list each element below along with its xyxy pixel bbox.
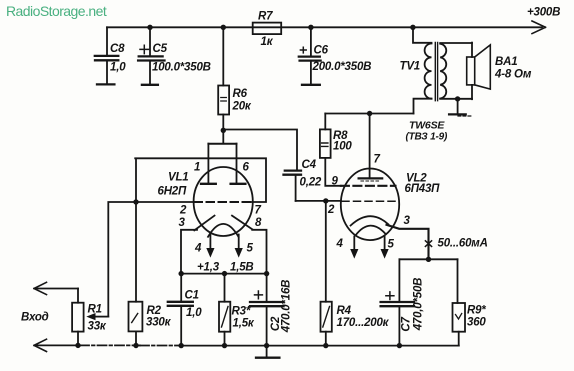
svg-text:C1: C1 bbox=[185, 290, 199, 302]
tube VL1 grid (dashed) bbox=[195, 201, 252, 203]
tube VL2 control grid (dashed) bbox=[342, 200, 396, 202]
svg-text:R4: R4 bbox=[337, 305, 352, 317]
svg-text:7: 7 bbox=[374, 154, 381, 166]
svg-text:+300В: +300В bbox=[527, 7, 560, 19]
wire VL2 cathode out pin3 bbox=[387, 225, 429, 259]
measuring point x bbox=[425, 241, 431, 247]
tube VL1 heater arrow pin5 bbox=[238, 235, 240, 249]
wire cathode node bbox=[399, 258, 457, 260]
svg-text:1,0: 1,0 bbox=[186, 307, 202, 319]
wire to C4 bbox=[223, 130, 297, 170]
svg-text:TW6SE: TW6SE bbox=[409, 120, 445, 132]
svg-text:6Н2П: 6Н2П bbox=[158, 186, 187, 198]
tube VL1 envelope bbox=[194, 167, 253, 236]
svg-text:0,22: 0,22 bbox=[300, 177, 322, 189]
resistor R3* bbox=[219, 274, 230, 346]
svg-text:200.0*350В: 200.0*350В bbox=[312, 61, 372, 73]
potentiometer R1 bbox=[34, 282, 108, 345]
svg-text:5: 5 bbox=[247, 243, 254, 255]
svg-text:1,5к: 1,5к bbox=[233, 318, 255, 330]
svg-text:20к: 20к bbox=[232, 101, 252, 113]
svg-text:4: 4 bbox=[194, 243, 202, 255]
resistor R6 bbox=[218, 27, 229, 130]
tube VL1 heater arrow pin4 bbox=[209, 235, 211, 249]
svg-text:5: 5 bbox=[388, 239, 395, 251]
tube VL2 heater arrow pin5 bbox=[384, 237, 386, 250]
svg-text:8: 8 bbox=[255, 217, 262, 229]
svg-text:RadioStorage.net: RadioStorage.net bbox=[6, 3, 107, 19]
tube VL2 screen grid (dashed) bbox=[341, 185, 396, 187]
ground C2 bbox=[266, 346, 268, 357]
svg-text:3: 3 bbox=[179, 217, 186, 229]
svg-text:1,0: 1,0 bbox=[110, 62, 126, 74]
svg-text:R6: R6 bbox=[233, 88, 248, 100]
speaker BA1 bbox=[467, 43, 491, 100]
svg-text:470.0*16В: 470.0*16В bbox=[281, 280, 293, 334]
capacitor C4 bbox=[284, 171, 302, 201]
svg-text:1: 1 bbox=[194, 162, 200, 174]
svg-text:7: 7 bbox=[255, 205, 262, 217]
svg-text:50...60мА: 50...60мА bbox=[438, 238, 488, 250]
svg-text:(ТВЗ 1-9): (ТВЗ 1-9) bbox=[406, 132, 448, 143]
tube VL2 heater bbox=[356, 226, 386, 236]
tube VL2 cathode bbox=[351, 216, 389, 225]
wire bottom rail with input arrow bbox=[35, 344, 80, 346]
svg-text:BA1: BA1 bbox=[495, 56, 517, 68]
tube VL1 anode strap bbox=[201, 130, 245, 184]
svg-text:1к: 1к bbox=[261, 36, 274, 48]
svg-text:VL1: VL1 bbox=[168, 172, 189, 184]
resistor R8 bbox=[320, 114, 341, 186]
node junction dot C5/top rail bbox=[147, 25, 152, 30]
svg-text:170...200к: 170...200к bbox=[337, 317, 390, 329]
node junction dot secondary/ground bbox=[455, 96, 460, 101]
svg-text:330к: 330к bbox=[146, 317, 172, 329]
svg-text:C5: C5 bbox=[153, 43, 168, 55]
svg-text:100.0*350В: 100.0*350В bbox=[152, 61, 211, 73]
svg-text:470,0*50В: 470,0*50В bbox=[413, 278, 425, 332]
node dots cathode rail bbox=[179, 271, 184, 276]
node junction dot VL2 grid bbox=[323, 198, 328, 203]
tube VL2 anode bbox=[369, 114, 371, 178]
wire cathode rail bbox=[180, 273, 268, 275]
tube VL2 envelope bbox=[341, 169, 399, 241]
wire VL1 cathode box bbox=[181, 230, 267, 274]
svg-text:3: 3 bbox=[404, 215, 411, 227]
capacitor C7 bbox=[381, 259, 414, 345]
node junction dot cathode bbox=[426, 257, 431, 262]
svg-text:C6: C6 bbox=[314, 45, 329, 57]
svg-text:C8: C8 bbox=[110, 43, 125, 55]
svg-text:Вход: Вход bbox=[21, 312, 49, 324]
wire VL1 grid left bbox=[136, 201, 195, 203]
svg-text:+1,3: +1,3 bbox=[197, 262, 220, 274]
svg-text:33к: 33к bbox=[88, 321, 107, 333]
svg-text:C4: C4 bbox=[302, 159, 317, 171]
tube VL1 cathode right bbox=[232, 216, 252, 230]
svg-text:6: 6 bbox=[243, 162, 250, 174]
svg-text:2: 2 bbox=[327, 204, 335, 216]
node junction dot C6/top rail bbox=[308, 25, 313, 30]
transformer TV1 secondary bbox=[440, 43, 472, 99]
svg-text:4: 4 bbox=[336, 238, 344, 250]
tube VL1 heater arc bbox=[208, 224, 239, 237]
svg-text:R2: R2 bbox=[147, 305, 162, 317]
resistor R2 bbox=[129, 202, 143, 346]
svg-text:R1: R1 bbox=[88, 304, 102, 316]
resistor R9* bbox=[453, 259, 466, 345]
svg-text:C7: C7 bbox=[401, 317, 413, 332]
svg-text:6П43П: 6П43П bbox=[405, 183, 441, 195]
wire arrowhead +300V bbox=[532, 21, 546, 34]
capacitor C1 bbox=[168, 274, 193, 346]
wire VL1 grid tie loop bbox=[135, 158, 266, 202]
ground TV1 secondary bbox=[457, 99, 459, 114]
capacitor C5 bbox=[138, 27, 164, 85]
capacitor C6 bbox=[299, 27, 321, 85]
svg-text:2: 2 bbox=[179, 205, 187, 217]
wire VL2 anode node bbox=[325, 113, 413, 115]
node +300V top rail bbox=[107, 26, 542, 28]
wire VL1 grid to R1 wiper bbox=[108, 202, 136, 317]
capacitor C8 bbox=[95, 27, 119, 84]
svg-text:R9*: R9* bbox=[467, 305, 486, 317]
wire C4 to VL2 grid bbox=[296, 200, 341, 202]
capacitor C2 bbox=[250, 274, 284, 346]
svg-text:R3*: R3* bbox=[232, 306, 251, 318]
node junction dot TV1/top rail bbox=[410, 25, 415, 30]
transformer TV1 primary bbox=[413, 27, 432, 113]
svg-text:360: 360 bbox=[467, 317, 486, 329]
svg-text:4-8 Ом: 4-8 Ом bbox=[494, 69, 532, 81]
tube VL1 cathode left bbox=[194, 216, 214, 231]
node junction dot R6 bottom bbox=[221, 128, 226, 133]
svg-text:1,5В: 1,5В bbox=[230, 262, 254, 274]
node dots bottom rail bbox=[75, 343, 80, 348]
node junction dot R6/top rail bbox=[221, 25, 226, 30]
svg-text:R7: R7 bbox=[258, 11, 273, 23]
node junction dot VL1 grid bbox=[133, 199, 138, 204]
resistor R7 bbox=[253, 23, 282, 34]
tube VL2 heater arrow pin4 bbox=[353, 237, 355, 250]
svg-text:9: 9 bbox=[332, 175, 339, 187]
svg-text:100: 100 bbox=[333, 141, 352, 153]
transformer TV1 core bbox=[435, 43, 437, 101]
resistor R4 bbox=[321, 201, 332, 346]
node junction dot anode/pin7 bbox=[367, 111, 372, 116]
svg-text:TV1: TV1 bbox=[400, 61, 421, 73]
